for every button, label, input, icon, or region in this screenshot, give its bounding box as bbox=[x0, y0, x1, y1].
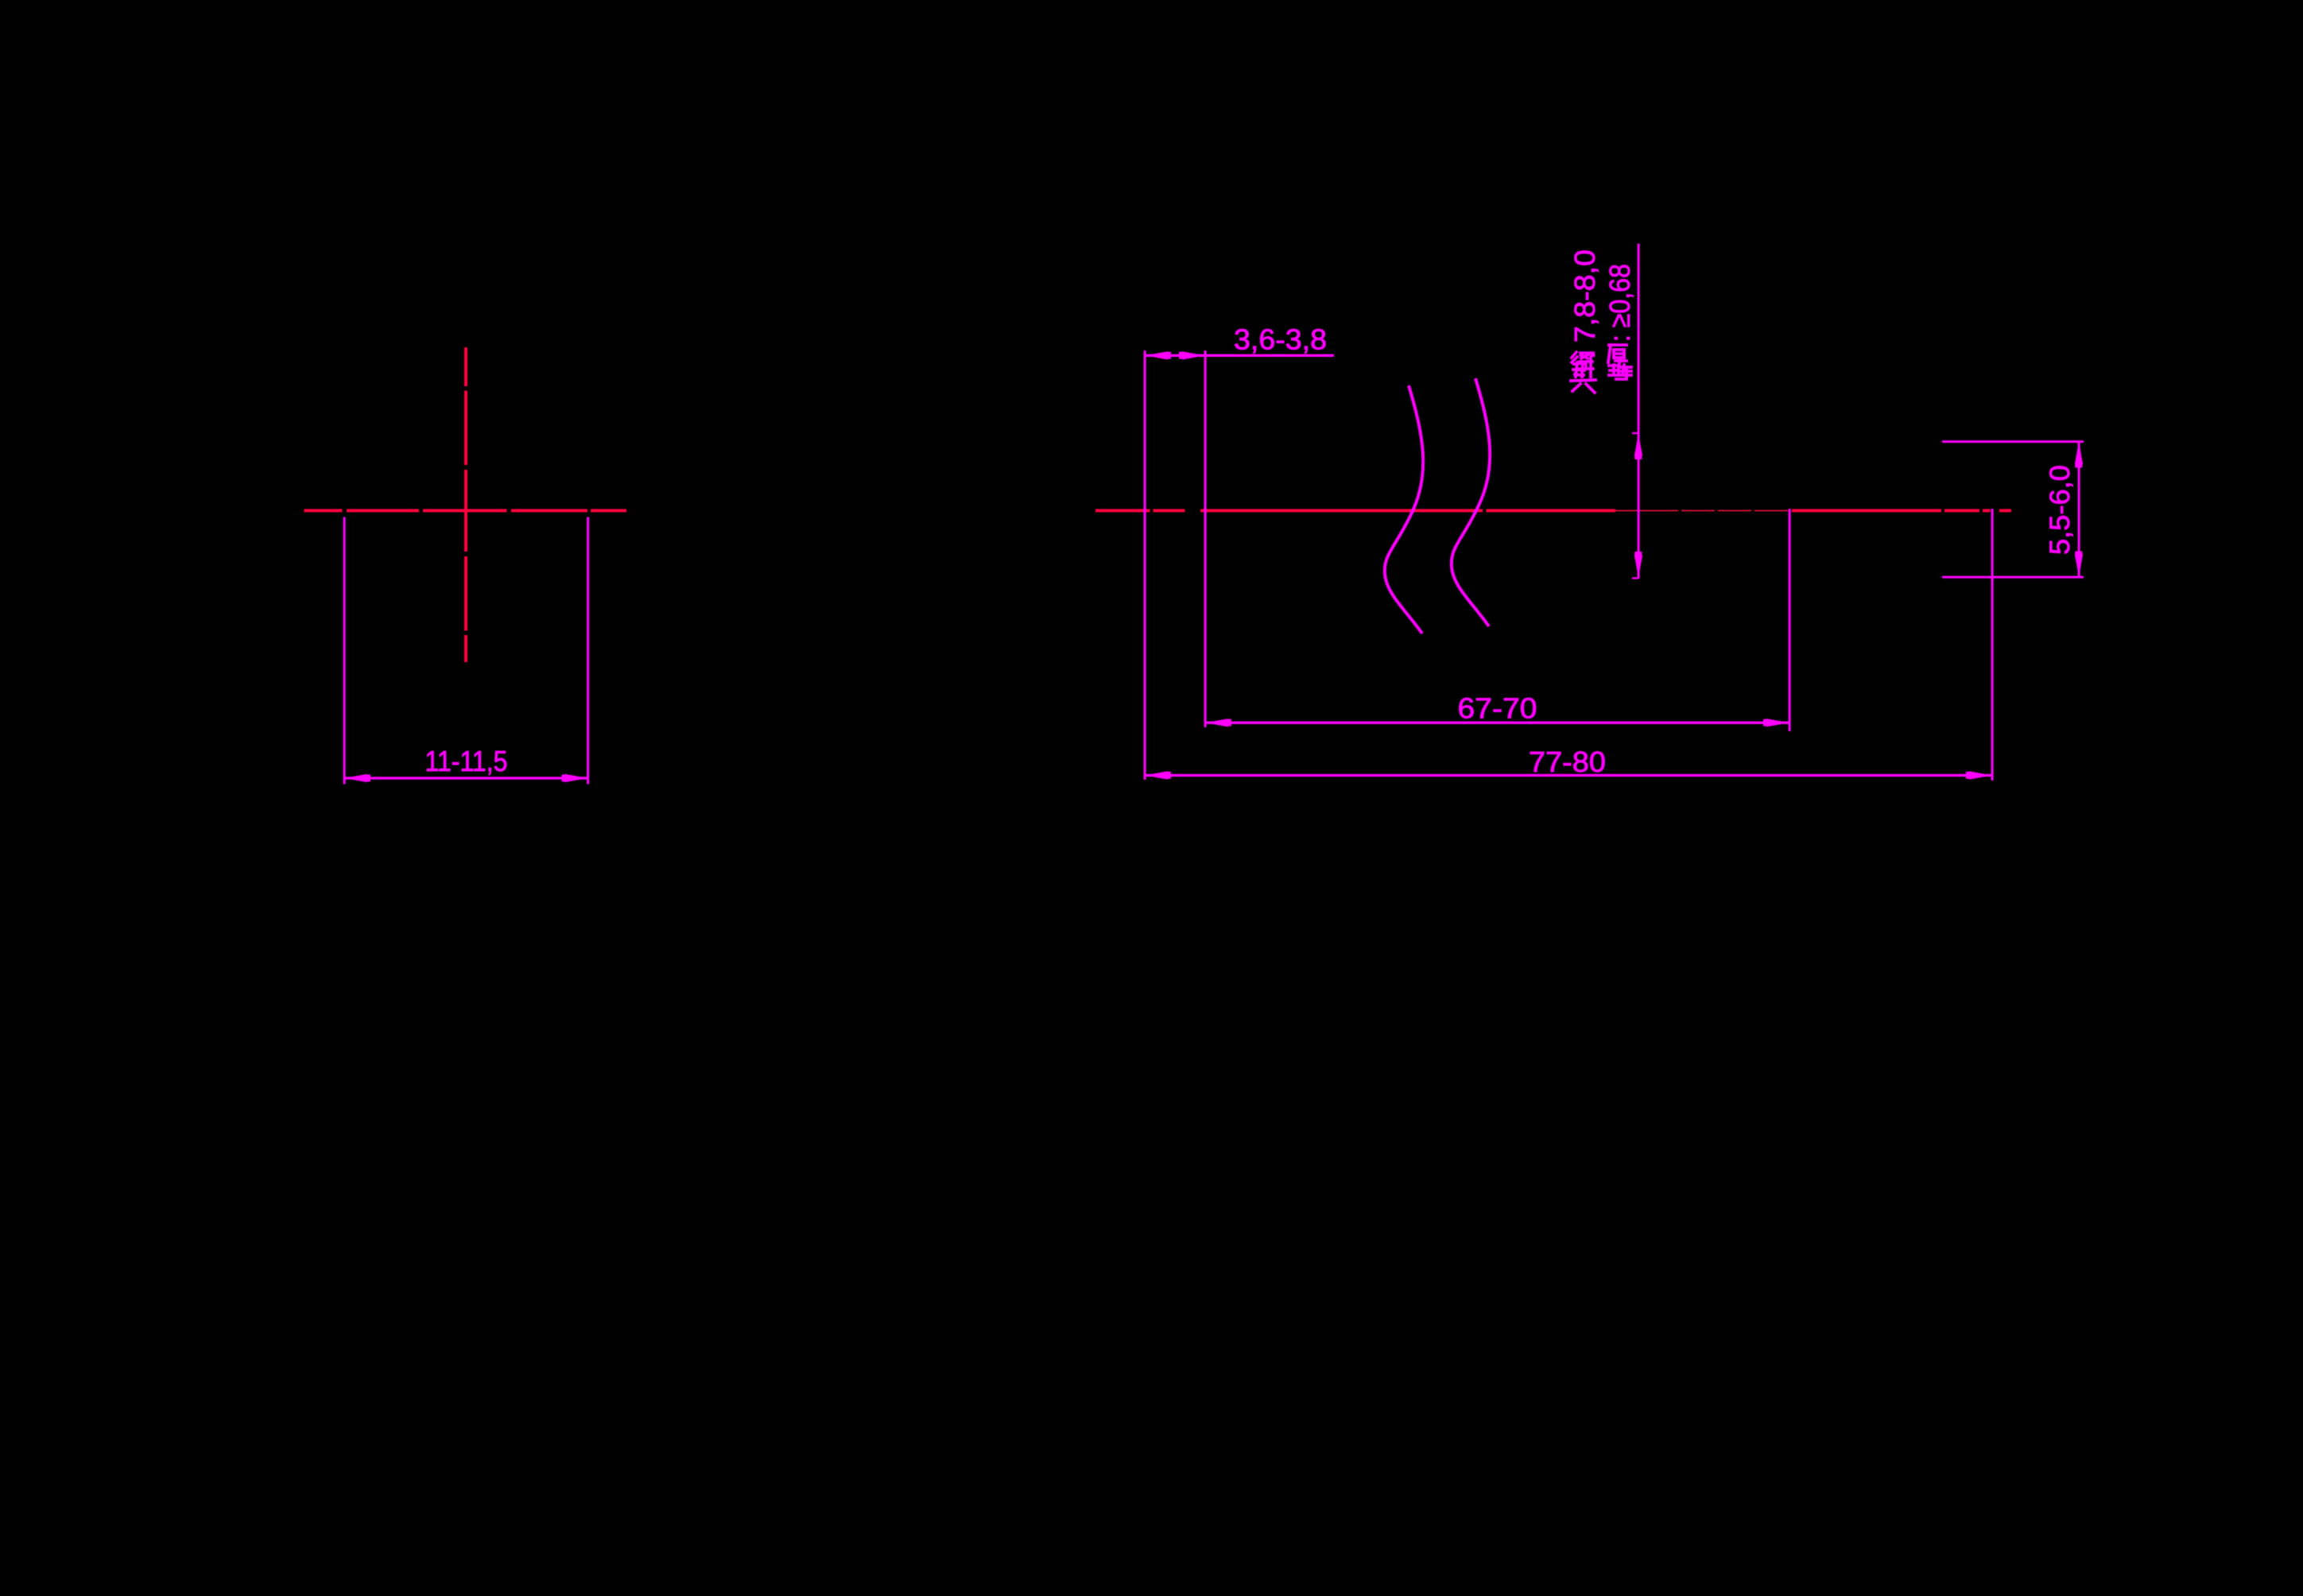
arrowhead right of dim 3.6-3.8 bbox=[1182, 351, 1205, 359]
centerline horizontal (right view), red, thick segments bbox=[1095, 509, 2011, 512]
tick at up arrow tip bbox=[1632, 432, 1638, 434]
break line curve 2 bbox=[1452, 378, 1490, 626]
arrowhead left of dim 77-80 bbox=[1145, 771, 1168, 779]
svg-text:67-70: 67-70 bbox=[1458, 692, 1537, 725]
dimension line for 7.8-8.0 (vertical, x=2061) bbox=[1638, 244, 1640, 579]
arrowhead right of dim 77-80 bbox=[1969, 771, 1992, 779]
label 外径: 7.8-8.0 (rotated) : CJK glyph 径 bbox=[1572, 352, 1593, 369]
extension line x=1516 (for dims 3.6-3.8 and 67-70) bbox=[1204, 351, 1207, 727]
arrowhead right of dim 67-70 bbox=[1766, 719, 1789, 726]
centerline horizontal (left view), red dash-dot bbox=[304, 509, 627, 512]
svg-text:5,5-6,0: 5,5-6,0 bbox=[2045, 465, 2076, 555]
centerline vertical (left view), red dash-dot bbox=[464, 347, 467, 662]
arrowhead left of dim 67-70 bbox=[1205, 719, 1228, 726]
svg-text:11-11,5: 11-11,5 bbox=[425, 745, 508, 777]
arrowhead left of dim 3.6-3.8 bbox=[1145, 351, 1168, 359]
svg-text:: ≥0,68: : ≥0,68 bbox=[1603, 264, 1636, 342]
arrow base steps bbox=[365, 352, 2082, 782]
arrowhead up (7.8-8.0 dim) bbox=[1634, 433, 1642, 456]
svg-text:3,6-3,8: 3,6-3,8 bbox=[1234, 323, 1327, 356]
arrowhead right of dim 11-11.5 bbox=[565, 774, 588, 782]
extension line x=2506 (right end of 77-80) bbox=[1991, 509, 1994, 781]
arrowhead down (7.8-8.0 dim) bbox=[1634, 555, 1642, 578]
svg-text:: 7,8-8,0: : 7,8-8,0 bbox=[1568, 250, 1601, 359]
label 壁厚: ≥0.68 (rotated) : CJK glyph 厚 bbox=[1608, 345, 1626, 363]
dimension line 67-70 bbox=[1205, 722, 1789, 724]
extension line left (left view) bbox=[343, 517, 346, 784]
extension line x=1440 (left end of tube, for dims 3.6-3.8 and 77-80) bbox=[1144, 351, 1146, 780]
dimension line 5.5-6.0 (vertical) bbox=[2078, 442, 2080, 578]
arrowhead left of dim 11-11.5 bbox=[344, 774, 367, 782]
dimension line 3.6-3.8 bbox=[1145, 354, 1334, 357]
arrowhead up (5.5-6.0) bbox=[2075, 442, 2083, 465]
dimension line 77-80 bbox=[1145, 774, 1992, 777]
extension line right (left view) bbox=[587, 517, 589, 784]
centerline horizontal (right view), red, thin segments bbox=[1615, 510, 1788, 512]
dimension line 11-11.5 bbox=[344, 777, 588, 779]
extension line x=2251 (right end of 67-70) bbox=[1789, 509, 1791, 731]
bottom edge extension line (right end, for 5.5-6.0) bbox=[1942, 576, 2084, 579]
label 壁厚: ≥0.68 (rotated) : CJK glyph 壁 bbox=[1609, 365, 1631, 379]
arrowhead down (5.5-6.0) bbox=[2075, 554, 2083, 577]
label 外径: 7.8-8.0 (rotated) : CJK glyph 外 bbox=[1571, 356, 1595, 393]
svg-text:77-80: 77-80 bbox=[1529, 746, 1606, 778]
break line curve 1 bbox=[1385, 385, 1423, 633]
tick at down arrow tip bbox=[1632, 577, 1638, 579]
top edge extension line (right end, for 5.5-6.0) bbox=[1942, 440, 2084, 443]
